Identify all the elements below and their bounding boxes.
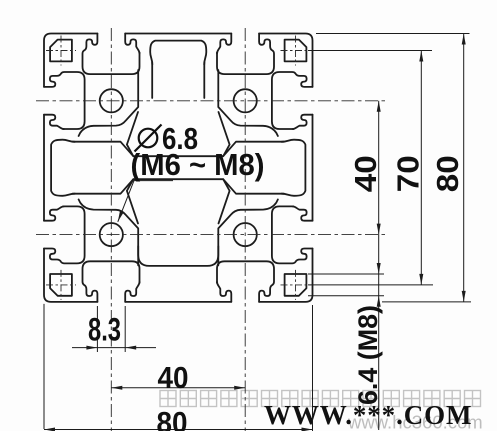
hole at 111.3,234.6	[100, 223, 123, 246]
leader line hole note	[118, 181, 173, 222]
arrows 40 bottom	[111, 386, 122, 390]
dim line 40 right + 6.4	[378, 101, 380, 430]
dim line 80 bottom	[44, 429, 313, 431]
T-slot outline bottom-left vertical-face	[44, 206, 85, 263]
center web lower wall	[127, 179, 230, 223]
corner square bottom-left	[50, 274, 72, 296]
T-slot outline top-left vertical-face	[44, 72, 85, 129]
dim line 80 right	[463, 34, 465, 302]
centerline vertical B	[244, 28, 246, 431]
arrows 8.3 outside	[86, 346, 97, 350]
face channel ceiling top	[150, 41, 206, 65]
T-slot inner lip top-right vertical-face	[293, 115, 313, 129]
T-slot outline bottom-left horizontal-face	[83, 261, 140, 302]
ext 6.4 lower	[308, 295, 384, 297]
svg-text:6.4 (M8): 6.4 (M8)	[353, 305, 383, 405]
corner square centerlines 295.5,50.5	[281, 36, 311, 66]
face channel ceiling left	[51, 140, 75, 196]
T-slot outline top-right horizontal-face	[217, 34, 274, 75]
ext 8.3 left	[96, 306, 98, 352]
svg-text:40: 40	[158, 360, 189, 395]
T-slot inner lip bottom-right horizontal-face	[217, 282, 231, 302]
ext 70 top	[308, 50, 432, 52]
profile outer outline	[44, 34, 313, 302]
ext 6.4 upper	[308, 273, 384, 275]
corner square centerlines 61,50.5	[46, 36, 76, 66]
svg-text:8.3: 8.3	[88, 311, 121, 347]
hole at 111.3,100.8	[100, 89, 123, 112]
channel wall right-south	[223, 179, 284, 194]
dim line 70 right	[420, 51, 422, 285]
centerline horizontal A	[36, 100, 389, 102]
face channel ceiling right	[282, 140, 306, 196]
boss corner wall top-left	[79, 70, 139, 136]
hole at 245.2,234.6	[234, 223, 257, 246]
svg-text:70: 70	[391, 155, 426, 192]
center web upper wall	[127, 112, 230, 156]
bottom face U pocket	[138, 246, 218, 266]
arrows 80 bottom	[44, 428, 55, 431]
centerline horizontal B	[36, 234, 389, 236]
T-slot inner lip top-right horizontal-face	[217, 34, 231, 54]
corner square top-left	[50, 40, 72, 62]
svg-text:80: 80	[157, 405, 188, 431]
T-slot outline bottom-right vertical-face	[272, 206, 313, 263]
T-slot inner lip top-left vertical-face	[44, 115, 64, 129]
channel wall left-north	[73, 142, 134, 157]
boss corner wall bottom-right	[218, 199, 278, 265]
corner square top-right	[285, 40, 307, 62]
ext 80 bottom right-v	[312, 305, 314, 431]
T-slot inner lip bottom-left horizontal-face	[125, 282, 139, 302]
channel wall right-north	[223, 142, 284, 157]
T-slot inner lip bottom-right vertical-face	[293, 206, 313, 220]
ext 80 bottom-right-h	[382, 301, 471, 303]
T-slot inner lip top-left horizontal-face	[125, 34, 139, 54]
watermark hanzi company name	[160, 391, 481, 407]
diameter symbol	[135, 125, 162, 152]
channel wall stub top-west	[151, 62, 153, 98]
T-slot outline top-right vertical-face	[272, 72, 313, 129]
ext 80 bottom left-v	[43, 304, 45, 429]
T-slot inner lip bottom-left vertical-face	[44, 206, 64, 220]
channel wall left-south	[73, 179, 134, 194]
ext 8.3 right	[124, 306, 126, 352]
centerline vertical A	[110, 28, 112, 431]
svg-text:(M6 ~ M8): (M6 ~ M8)	[131, 147, 265, 182]
corner square centerlines 61,284.9	[46, 270, 76, 300]
svg-text:40: 40	[348, 155, 383, 192]
svg-text:80: 80	[430, 155, 465, 192]
ext 80 top	[316, 33, 470, 35]
arrows 80 right	[462, 34, 466, 45]
dim line 8.3	[72, 347, 156, 349]
dim line 40 bottom	[111, 387, 245, 389]
boss corner wall top-right	[218, 70, 278, 136]
ext 70 bottom	[308, 284, 433, 286]
corner square bottom-right	[285, 274, 307, 296]
arrows 40 right	[377, 101, 381, 112]
T-slot outline bottom-right horizontal-face	[217, 261, 274, 302]
channel wall stub top-east	[203, 62, 205, 98]
arrows 70 right	[419, 51, 423, 62]
corner square centerlines 295.5,284.9	[281, 270, 311, 300]
arrows 6.4 outside	[377, 263, 381, 274]
hole at 245.2,100.8	[234, 89, 257, 112]
boss corner wall bottom-left	[79, 199, 139, 265]
T-slot outline top-left horizontal-face	[83, 34, 140, 75]
